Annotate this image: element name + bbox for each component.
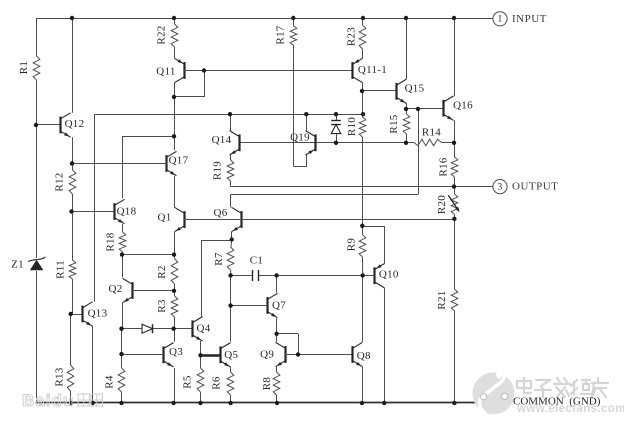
svg-text:R13: R13: [54, 367, 66, 386]
svg-text:Q14: Q14: [212, 134, 232, 146]
svg-text:Q9: Q9: [260, 349, 274, 361]
svg-text:R21: R21: [436, 290, 448, 309]
svg-text:INPUT: INPUT: [512, 13, 547, 25]
svg-text:R3: R3: [156, 299, 168, 313]
svg-text:Q4: Q4: [196, 323, 210, 335]
svg-text:Q7: Q7: [272, 300, 286, 312]
svg-text:Q15: Q15: [405, 83, 425, 95]
svg-text:R15: R15: [388, 114, 400, 133]
svg-text:R17: R17: [275, 25, 287, 44]
svg-text:R5: R5: [182, 375, 194, 389]
svg-text:Q11-1: Q11-1: [358, 64, 387, 76]
svg-text:OUTPUT: OUTPUT: [512, 181, 558, 193]
svg-text:Q3: Q3: [169, 346, 183, 358]
svg-text:Q6: Q6: [213, 207, 227, 219]
svg-text:COMMON (GND): COMMON (GND): [513, 395, 601, 407]
svg-text:R7: R7: [213, 252, 225, 266]
svg-text:R18: R18: [105, 232, 117, 251]
svg-text:Q13: Q13: [88, 308, 108, 320]
svg-text:R23: R23: [346, 27, 358, 46]
svg-text:Q2: Q2: [108, 283, 122, 295]
svg-text:R4: R4: [104, 375, 116, 389]
svg-text:C1: C1: [250, 255, 263, 267]
svg-text:R6: R6: [211, 376, 223, 390]
svg-text:1: 1: [497, 14, 502, 24]
svg-text:Q1: Q1: [157, 212, 171, 224]
svg-text:Q19: Q19: [290, 132, 310, 144]
svg-text:Q12: Q12: [65, 118, 85, 130]
svg-text:R8: R8: [261, 377, 273, 391]
svg-text:Q10: Q10: [379, 269, 399, 281]
svg-text:Q17: Q17: [169, 155, 189, 167]
svg-text:R1: R1: [18, 61, 30, 74]
svg-text:R16: R16: [438, 157, 450, 176]
svg-text:3: 3: [497, 182, 502, 192]
svg-text:R10: R10: [346, 117, 358, 136]
svg-text:Q18: Q18: [117, 205, 137, 217]
svg-text:R9: R9: [346, 238, 358, 252]
svg-text:R14: R14: [422, 127, 441, 139]
svg-text:Q8: Q8: [357, 350, 371, 362]
svg-text:Q11: Q11: [156, 66, 175, 78]
svg-text:R2: R2: [156, 265, 168, 278]
svg-text:R22: R22: [156, 25, 168, 44]
svg-text:R19: R19: [212, 161, 224, 180]
svg-text:Q5: Q5: [224, 349, 238, 361]
svg-text:Baidu: Baidu: [22, 391, 74, 410]
svg-text:R11: R11: [55, 260, 67, 279]
svg-text:R20: R20: [436, 195, 448, 214]
svg-text:R12: R12: [54, 172, 66, 191]
svg-text:Q16: Q16: [453, 100, 473, 112]
svg-text:Z1: Z1: [11, 259, 24, 271]
